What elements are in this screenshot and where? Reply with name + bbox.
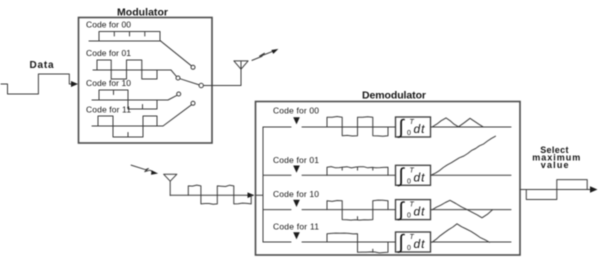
svg-text:0: 0 — [407, 245, 411, 252]
received noisy waveform — [188, 185, 251, 204]
svg-text:Demodulator: Demodulator — [362, 89, 426, 101]
branch 01 product waveform — [327, 167, 388, 176]
svg-text:dt: dt — [414, 122, 426, 136]
wire pole to TX antenna — [203, 61, 241, 86]
switch contact 00 — [191, 65, 195, 69]
RX antenna — [164, 174, 177, 195]
svg-text:0: 0 — [407, 178, 411, 185]
branch 01 correlator output ramp — [432, 136, 496, 175]
switch pole — [199, 83, 203, 87]
branch 10 product waveform — [327, 200, 388, 220]
data input arrowhead — [71, 81, 78, 87]
branch 11 product waveform — [327, 233, 388, 253]
output wire — [521, 189, 592, 191]
branch 01 integrator box — [396, 165, 431, 185]
branch 00 product waveform — [327, 117, 388, 137]
wire RX antenna to demodulator — [170, 194, 248, 196]
svg-text:0: 0 — [407, 130, 411, 137]
branch 11 baseline wire — [263, 241, 511, 243]
branch 10 code-injection arrow — [293, 200, 300, 207]
svg-text:0: 0 — [407, 213, 411, 220]
branch 10 integrator box — [396, 200, 431, 220]
branch 00 baseline wire — [263, 126, 511, 128]
svg-text:Code for 10: Code for 10 — [86, 78, 131, 88]
TX radio wave arrow — [252, 51, 273, 60]
branch 10 correlator output waveform — [432, 200, 493, 218]
branch 11 code-injection arrow — [293, 232, 300, 239]
svg-text:dt: dt — [414, 170, 426, 184]
code 00 waveform — [89, 32, 161, 42]
svg-text:dt: dt — [414, 205, 426, 219]
code 10 waveform — [92, 90, 168, 109]
svg-text:Code for 00: Code for 00 — [273, 106, 319, 116]
switch contact 11 — [191, 101, 195, 105]
switch wiper — [180, 79, 199, 85]
wire code10 to switch — [168, 95, 177, 100]
output data waveform — [526, 180, 587, 200]
code 11 waveform — [92, 116, 163, 137]
wire code00 to switch — [161, 41, 191, 66]
branch 11 correlator output waveform — [432, 224, 490, 243]
svg-text:value: value — [541, 160, 569, 170]
wire code01 to switch — [171, 70, 176, 76]
svg-text:Data: Data — [30, 60, 54, 71]
output arrowhead — [590, 186, 598, 192]
branch 00 integrator box — [396, 117, 431, 137]
svg-text:Code for 11: Code for 11 — [86, 105, 131, 115]
received waveform arrowhead — [248, 192, 255, 198]
modulator box — [79, 18, 213, 144]
switch contact 01 — [176, 76, 180, 80]
svg-text:Code for 11: Code for 11 — [273, 222, 319, 232]
svg-text:Code for 10: Code for 10 — [273, 189, 319, 199]
svg-text:Modulator: Modulator — [117, 6, 168, 18]
branch 00 code-injection arrow — [293, 117, 300, 124]
TX antenna — [234, 61, 248, 69]
branch 11 integrator box — [396, 232, 431, 252]
RX radio wave arrow — [131, 165, 153, 172]
branch 00 correlator output waveform — [432, 118, 483, 127]
input bus wire — [256, 127, 264, 242]
svg-text:Code for 00: Code for 00 — [86, 20, 131, 30]
wire code11 to switch — [163, 105, 192, 126]
branch 10 baseline wire — [263, 209, 511, 211]
branch 01 code-injection arrow — [293, 166, 300, 173]
svg-text:dt: dt — [414, 237, 426, 251]
svg-text:Code for 01: Code for 01 — [273, 155, 319, 165]
switch contact 10 — [177, 92, 181, 96]
branch 01 baseline wire — [263, 174, 511, 176]
data input waveform — [1, 74, 73, 94]
svg-text:Code for 01: Code for 01 — [86, 48, 131, 58]
demodulator box — [256, 102, 521, 256]
code 01 waveform — [93, 60, 171, 79]
